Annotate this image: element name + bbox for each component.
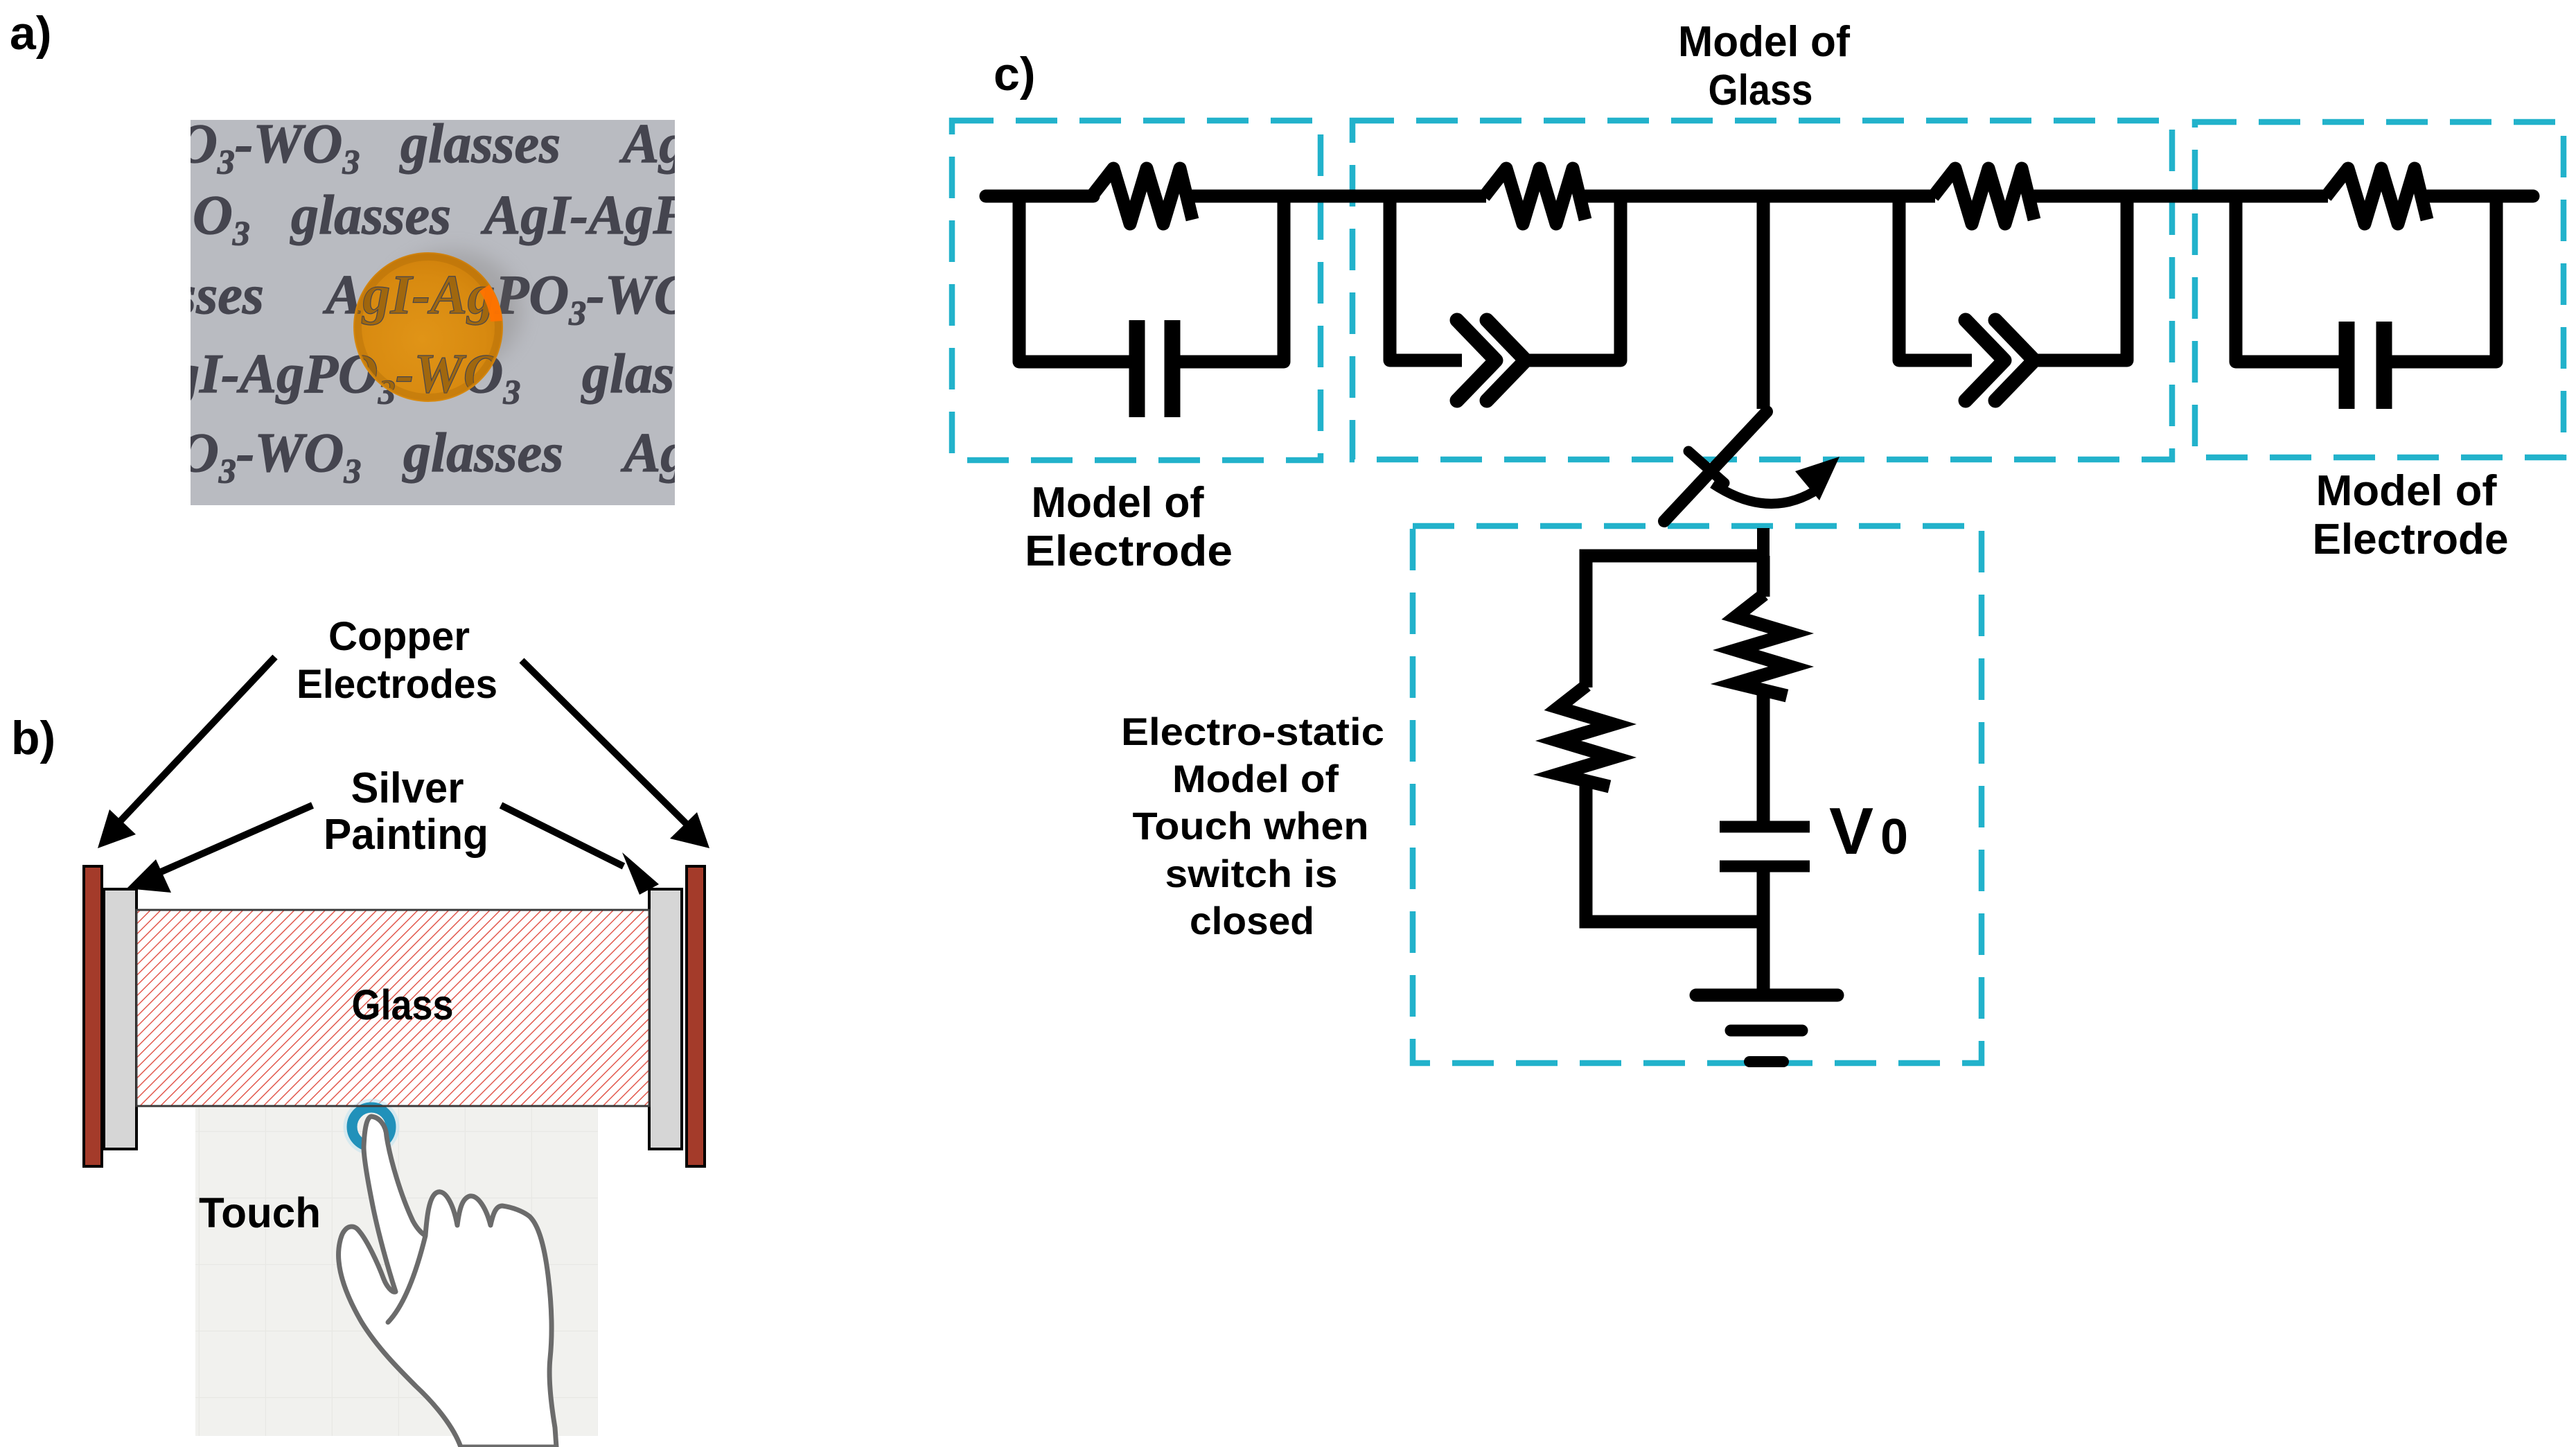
svg-text:Electrode: Electrode	[1025, 527, 1233, 575]
svg-text:Silver: Silver	[351, 764, 464, 812]
svg-text:c): c)	[994, 48, 1035, 100]
touch screen photo background	[195, 1107, 598, 1436]
glass bottom edge over ring	[326, 1105, 419, 1107]
wire: left branch lower + bottom	[1586, 784, 1763, 922]
dashed box: right electrode model	[2195, 122, 2564, 457]
resistor R2 (glass bulk left)	[1484, 168, 1585, 224]
dashed box: left electrode model	[952, 121, 1321, 460]
glass slab with hatch	[136, 910, 649, 1106]
photo: glass sample on printed paper	[170, 114, 694, 505]
wire: R4 to right end	[2424, 190, 2533, 203]
wire: block2b right side loop	[2036, 196, 2127, 360]
svg-text:b): b)	[11, 712, 55, 764]
wire: capacitor to bottom node	[1757, 870, 1770, 922]
svg-text:Ag: Ag	[619, 114, 687, 175]
wire: main bus left end to R1	[986, 190, 1093, 203]
svg-text:glasses: glasses	[402, 423, 563, 484]
wire: right branch to capacitor	[1757, 693, 1770, 822]
left silver painting bar	[104, 889, 136, 1149]
wire: block2b left side loop	[1899, 196, 1972, 360]
fingertip touch ring glow	[346, 1102, 396, 1152]
svg-text:O3-WO3: O3-WO3	[177, 114, 360, 181]
svg-text:glasses: glasses	[399, 114, 561, 175]
resistor R1 (left electrode)	[1091, 168, 1192, 224]
ground symbol	[1696, 995, 1837, 1062]
svg-text:AgI-AgF: AgI-AgF	[480, 185, 690, 246]
wire: switch node vertical drop	[1757, 196, 1770, 409]
disc highlight	[479, 285, 502, 322]
svg-text:Electrode: Electrode	[2313, 516, 2509, 563]
dashed box: glass model	[1352, 121, 2172, 459]
CPE Q2 (glass right) chevrons	[1966, 320, 2034, 401]
svg-text:sses: sses	[174, 265, 264, 326]
arrow to left copper electrode	[98, 657, 275, 848]
svg-text:Glass: Glass	[1709, 67, 1813, 114]
wire: R1 to R2	[1189, 190, 1486, 203]
left copper electrode bar	[84, 866, 102, 1166]
switch motion arc arrow	[1713, 484, 1819, 504]
svg-text:Glass: Glass	[352, 981, 454, 1028]
touch model: entry wire from switch	[1757, 528, 1770, 563]
svg-text:Electrodes: Electrodes	[297, 662, 497, 707]
wire: block2a right side loop	[1527, 196, 1621, 360]
wire: block3 left side loop	[2236, 196, 2343, 362]
wire: touch model top + left branch upper	[1586, 556, 1763, 687]
hand icon	[339, 1116, 556, 1447]
dashed box: electro-static touch model	[1413, 526, 1982, 1063]
svg-text:Electro-static: Electro-static	[1121, 710, 1384, 753]
svg-text:Model of: Model of	[1172, 757, 1339, 800]
svg-text:glas: glas	[581, 344, 674, 405]
resistor R4 (right electrode)	[2326, 168, 2427, 224]
svg-text:Painting: Painting	[324, 811, 488, 859]
right silver painting bar	[649, 889, 682, 1149]
svg-text:V0: V0	[1829, 794, 1908, 868]
svg-text:Model of: Model of	[1678, 18, 1850, 66]
disc shadow	[383, 250, 522, 372]
svg-text:Ag: Ag	[620, 423, 688, 484]
wire: R2 to R3 (switch node)	[1582, 190, 1935, 203]
svg-text:Model of: Model of	[1032, 479, 1204, 527]
svg-text:Touch when: Touch when	[1133, 804, 1369, 848]
fingertip touch ring	[352, 1107, 391, 1146]
svg-text:Touch: Touch	[199, 1189, 321, 1236]
wire: bottom node to ground	[1757, 922, 1770, 990]
wire: R3 to R4	[2031, 190, 2328, 203]
capacitor C2 (right electrode) plates	[2347, 322, 2384, 409]
switch blade	[1664, 412, 1767, 521]
right copper electrode bar	[687, 866, 705, 1166]
arrow to right copper electrode	[522, 660, 709, 848]
capacitor C1 (left electrode) plates	[1137, 320, 1172, 417]
svg-text:switch is: switch is	[1165, 852, 1338, 895]
resistor R5 (touch, left)	[1558, 685, 1614, 787]
arrow to left silver painting	[127, 805, 312, 893]
svg-text:Copper: Copper	[328, 614, 470, 659]
wire: right branch upper	[1757, 556, 1770, 597]
orange glass disc	[353, 252, 503, 402]
wire: block1 right side loop	[1178, 196, 1284, 362]
svg-text:O3-WO3: O3-WO3	[179, 423, 361, 490]
switch cross mark	[1688, 451, 1724, 483]
resistor R3 (glass bulk right)	[1933, 168, 2034, 224]
wire: block3 right side loop	[2389, 196, 2496, 362]
svg-text:closed: closed	[1190, 899, 1314, 942]
capacitor V0 plates	[1720, 827, 1810, 866]
CPE Q1 (glass left) chevrons	[1457, 320, 1526, 401]
svg-text:a): a)	[10, 7, 51, 60]
svg-text:glasses: glasses	[290, 185, 451, 246]
wire: block2a left side loop	[1390, 196, 1462, 360]
wire: block1 left side loop	[1019, 196, 1132, 362]
arrow to right silver painting	[501, 805, 659, 895]
svg-text:Model of: Model of	[2316, 467, 2497, 515]
resistor R6 (touch, right)	[1736, 595, 1791, 696]
